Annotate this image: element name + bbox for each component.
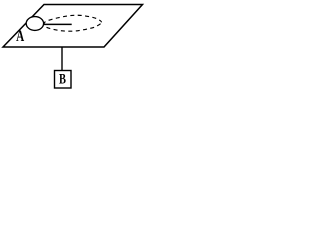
ball A (white-filled ellipse) xyxy=(26,17,43,31)
hanging string (vertical line to box B) xyxy=(61,47,63,70)
background xyxy=(0,0,146,92)
svg-text:B: B xyxy=(59,71,66,87)
string from ball A to hole (solid line) xyxy=(36,23,72,25)
plane (table surface parallelogram) xyxy=(3,5,143,48)
box B (hanging mass) xyxy=(55,71,72,89)
dashed circular path (ellipse in perspective) xyxy=(44,15,101,31)
svg-text:A: A xyxy=(16,27,24,44)
